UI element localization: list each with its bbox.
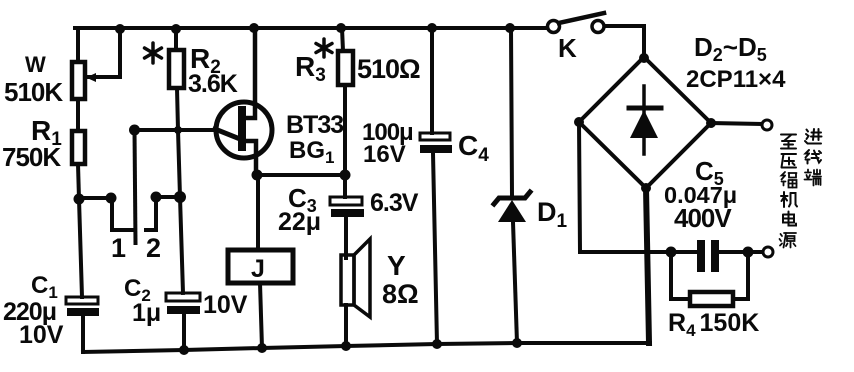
node C5 left junction — [666, 247, 677, 258]
label 压 (press) — [782, 154, 797, 168]
capacitor C5 plates — [697, 240, 719, 272]
node bottom rail junction (C2) — [179, 345, 189, 355]
svg-text:750K: 750K — [2, 142, 61, 172]
terminal upper (open circle) — [762, 120, 772, 130]
node G junction — [74, 194, 85, 205]
node emitter/R2 crossing junction — [174, 126, 182, 134]
wire C5 right to terminal — [719, 250, 762, 254]
wire R4 left leg — [671, 252, 690, 299]
wire bridge right vertex to terminal — [711, 123, 761, 124]
wire D1 to ground rail — [513, 222, 517, 343]
svg-text:6.3V: 6.3V — [370, 189, 419, 217]
wire BG1 bottom to R3 column — [257, 173, 345, 177]
svg-text:8Ω: 8Ω — [382, 279, 419, 309]
svg-text:16V: 16V — [363, 141, 406, 168]
wire R4 right leg — [733, 252, 748, 299]
bridge rectifier D2-D5 — [579, 57, 711, 188]
speaker Y — [341, 239, 370, 317]
connector contact 1 — [112, 198, 133, 230]
wire BG1 bottom down to relay J — [256, 175, 260, 250]
svg-text:1μ: 1μ — [132, 299, 161, 327]
svg-text:22μ: 22μ — [278, 208, 321, 236]
svg-text:BT33: BT33 — [286, 111, 343, 139]
label 进 (input) — [805, 129, 822, 144]
wire R3 to C3 — [343, 85, 347, 197]
node R4 right junction — [743, 247, 754, 258]
node bridge right vertex — [706, 118, 716, 128]
svg-text:400V: 400V — [674, 203, 732, 233]
wire W to R1 — [76, 99, 80, 131]
svg-text:10V: 10V — [203, 291, 248, 319]
wire R3 top — [342, 28, 343, 51]
svg-text:C4: C4 — [458, 130, 489, 166]
wire bridge bottom to ground rail (thick) — [646, 188, 649, 343]
connector contact 2 — [146, 197, 156, 230]
node top rail junction F (D1) — [505, 23, 515, 33]
wire C2 to ground rail — [182, 314, 186, 350]
wire R1 to node G — [78, 164, 79, 199]
svg-text:K: K — [558, 33, 577, 63]
zener diode D1 — [494, 192, 530, 222]
svg-text:1: 1 — [111, 233, 126, 263]
wire emitter lead to BG1 — [135, 128, 217, 132]
wire C1 to ground rail — [81, 316, 85, 352]
wire J to ground rail — [260, 283, 262, 348]
label 机 (machine) — [781, 192, 797, 207]
resistor R4 body — [690, 292, 733, 306]
node bottom rail junction (J) — [257, 343, 267, 353]
connector probe pin (center electrode) — [135, 130, 136, 243]
svg-text:R3: R3 — [295, 51, 326, 86]
node top rail junction E (C4) — [427, 23, 437, 33]
node top rail junction A (wiper) — [115, 24, 125, 34]
capacitor C1 plates — [66, 297, 99, 316]
node R3/BG1 junction — [340, 170, 351, 181]
resistor R3 body — [338, 51, 353, 85]
label 源 (source) — [780, 233, 797, 248]
capacitor C4 plates — [420, 133, 452, 153]
asterisk for R2 — [145, 43, 162, 63]
wire node G to contact 1 — [79, 196, 111, 200]
wire contact2 to C2 column — [156, 195, 180, 199]
resistor R2 body — [169, 50, 184, 88]
terminal lower (open circle) — [763, 247, 773, 257]
node contact1 junction — [106, 193, 117, 204]
node contact2 junction — [151, 192, 162, 203]
wire node G down to C1 — [79, 199, 82, 297]
node emitter wire junction (probe drop) — [129, 125, 140, 136]
wire switch to bridge top — [642, 26, 646, 57]
asterisk for R3 — [316, 39, 332, 57]
svg-text:510K: 510K — [4, 77, 63, 107]
transistor BG1 (BT33) — [215, 28, 272, 175]
node bottom rail junction (C4) — [432, 339, 442, 349]
wire speaker to ground rail — [344, 305, 348, 346]
wire R2 bottom through emitter node down to C2 — [177, 88, 183, 293]
svg-text:R4150K: R4150K — [668, 309, 759, 340]
label 线 (line) — [806, 150, 822, 164]
node C2 top junction — [174, 191, 186, 203]
node top rail junction D (R3) — [336, 23, 346, 33]
svg-text:D2~D5: D2~D5 — [694, 32, 767, 65]
svg-text:2: 2 — [146, 233, 161, 263]
node bridge top vertex — [639, 53, 649, 63]
label 端 (terminal) — [805, 170, 822, 186]
node bottom rail junction (D1) — [512, 338, 522, 348]
switch K — [548, 13, 605, 33]
svg-text:10V: 10V — [19, 321, 64, 349]
wire left column top (rail to W) — [76, 28, 80, 62]
wire bottom ground rail — [83, 343, 650, 352]
node top rail junction C (BG1 top) — [249, 23, 259, 33]
resistor R1 body — [72, 131, 85, 164]
wire C4 to ground rail — [433, 153, 437, 344]
wire top supply rail — [75, 26, 644, 28]
label 电 (electric) — [783, 212, 796, 226]
svg-text:2CP11×4: 2CP11×4 — [686, 66, 786, 93]
wire bridge left vertex down and right to C5 — [579, 122, 696, 252]
label 至 (to) — [781, 135, 796, 149]
svg-text:510Ω: 510Ω — [357, 54, 420, 84]
svg-text:Y: Y — [387, 250, 406, 281]
svg-text:BG1: BG1 — [289, 137, 334, 167]
node top rail junction B (R2) — [171, 24, 181, 34]
node bottom rail junction (Y) — [341, 341, 351, 351]
wire C3 to speaker — [344, 217, 348, 258]
potentiometer W body — [72, 62, 85, 99]
node bridge left vertex — [574, 117, 584, 127]
capacitor C2 plates — [166, 293, 200, 314]
svg-text:D1: D1 — [537, 197, 568, 232]
wire R2 top — [174, 28, 178, 50]
wire D1 top — [511, 28, 512, 196]
wire C4 top — [430, 28, 434, 133]
label 编 (knit) — [782, 172, 797, 188]
capacitor C3 plates — [330, 197, 364, 217]
node BG1 bottom junction — [252, 170, 263, 181]
node bridge bottom vertex — [641, 183, 651, 193]
svg-text:W: W — [25, 52, 46, 77]
relay J coil box — [228, 250, 293, 283]
svg-text:3.6K: 3.6K — [188, 70, 238, 98]
potentiometer W wiper arm — [86, 29, 120, 82]
svg-text:J: J — [251, 255, 265, 283]
